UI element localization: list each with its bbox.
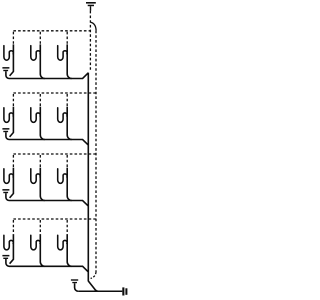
condensate bus, module 3 — [6, 193, 88, 206]
vent cap on bus left end, module 1 — [2, 67, 9, 71]
pigtail siphon loop 2.2 — [31, 108, 40, 123]
condensate bus, module 1 — [6, 71, 88, 78]
pigtail siphon loop 2.3 — [58, 108, 67, 123]
pigtail siphon loop 3.2 — [31, 169, 40, 184]
dashed dropper to siphon 2.3 — [66, 94, 68, 107]
drain downline 3.1 — [10, 168, 14, 198]
dashed box top edge, module 2 — [13, 92, 96, 94]
drain downline 2.3 with elbow into bus — [67, 107, 72, 140]
vent cap on bus left end, module 3 — [2, 189, 9, 193]
condensate bus, module 2 — [6, 132, 88, 145]
drain downline 1.2 with elbow into bus — [40, 44, 45, 78]
dashed dropper to siphon 4.2 — [39, 220, 41, 234]
dashed dropper to siphon 1.3 — [66, 32, 68, 45]
riser bottom elbow and horizontal drain run — [88, 281, 122, 291]
main dashed vertical line (right) — [95, 31, 97, 272]
vent cap on bottom drain hook — [71, 279, 78, 283]
pigtail siphon loop 1.1 — [4, 46, 13, 61]
dashed dropper to siphon 2.1 — [12, 94, 14, 107]
drain downline 2.1 — [10, 107, 14, 137]
pipe end terminal (double bar) — [122, 287, 127, 295]
pigtail siphon loop 1.3 — [58, 46, 67, 61]
pigtail siphon loop 4.3 — [58, 235, 67, 250]
pigtail siphon loop 3.3 — [58, 169, 67, 184]
pigtail siphon loop 1.2 — [31, 46, 40, 61]
dashed dropper to siphon 2.2 — [39, 94, 41, 107]
drain downline 4.2 with elbow into bus — [40, 234, 45, 266]
drain downline 4.1 — [10, 234, 14, 264]
drain hook with vent at bottom — [75, 283, 79, 291]
dashed box top edge, module 3 — [13, 153, 96, 155]
pigtail siphon loop 4.1 — [4, 235, 13, 250]
pigtail siphon loop 3.1 — [4, 169, 13, 184]
condensate bus, module 4 — [6, 259, 88, 272]
dashed line from vent V0 down to riser junction — [89, 11, 91, 71]
pigtail siphon loop 2.1 — [4, 108, 13, 123]
pigtail siphon loop 4.2 — [31, 235, 40, 250]
dashed dropper to siphon 4.1 — [12, 220, 14, 234]
vent cap on bus left end, module 4 — [2, 255, 9, 259]
dashed dropper to siphon 3.1 — [12, 155, 14, 168]
dashed dropper to siphon 1.1 — [12, 32, 14, 45]
solid riser pipe (right) — [87, 73, 89, 282]
drain downline 3.2 with elbow into bus — [40, 168, 45, 201]
drain downline 3.3 with elbow into bus — [67, 168, 72, 201]
dashed elbow joining main dashed vertical to riser at bottom — [91, 272, 96, 279]
dashed elbow joining header to main dashed vertical — [91, 22, 97, 30]
drain downline 2.2 with elbow into bus — [40, 107, 45, 140]
dashed dropper to siphon 3.2 — [39, 155, 41, 168]
dashed dropper to siphon 3.3 — [66, 155, 68, 168]
dashed box top edge, module 4 — [13, 218, 96, 220]
dashed dropper to siphon 4.3 — [66, 220, 68, 234]
vent cap V0 at top of dashed header — [86, 2, 96, 11]
drain downline 4.3 with elbow into bus — [67, 234, 72, 266]
drain downline 1.3 with elbow into bus — [67, 44, 72, 78]
bottom horizontal drain line (left part) — [78, 290, 98, 292]
drain downline 1.1 — [10, 44, 14, 76]
dashed dropper to siphon 1.2 — [39, 32, 41, 45]
vent cap on bus left end, module 2 — [2, 128, 9, 132]
dashed box top edge, module 1 — [13, 30, 90, 32]
